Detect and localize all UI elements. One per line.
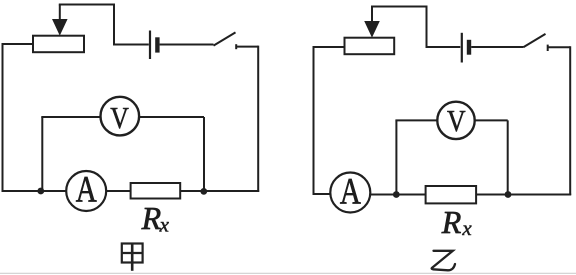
svg-text:R: R <box>141 200 162 236</box>
ammeter A2 circle <box>330 173 370 213</box>
svg-text:x: x <box>461 216 472 240</box>
wire left vertical <box>2 43 4 191</box>
wire bottom right segment <box>508 194 571 196</box>
voltmeter loop right vertical <box>507 120 509 192</box>
battery B1 short plate <box>155 37 159 52</box>
wire switch to right corner <box>548 46 571 48</box>
switch S1 fixed contact <box>235 44 237 49</box>
battery B2 short plate <box>467 40 471 55</box>
wire to battery <box>426 46 461 48</box>
switch S2 fixed contact <box>547 45 549 51</box>
wire rheostat-left to left edge <box>3 43 34 45</box>
caption 乙 <box>432 251 455 270</box>
svg-text:A: A <box>76 168 98 209</box>
svg-text:x: x <box>159 212 170 236</box>
svg-text:V: V <box>447 104 466 138</box>
resistor Rx body (left) <box>131 183 181 199</box>
node dot left (junction) <box>37 188 44 195</box>
node dot left (junction) <box>393 191 400 198</box>
node dot right (junction) <box>505 191 512 198</box>
svg-text:R: R <box>441 204 462 240</box>
wire bottom to ammeter <box>313 193 331 195</box>
ammeter A1 circle <box>66 171 106 211</box>
node dot right (junction) <box>200 188 207 195</box>
wire dot to resistor <box>396 194 426 196</box>
scan artifact line at bottom <box>0 272 576 274</box>
wire ammeter to resistor <box>106 190 131 192</box>
resistor Rx body (right) <box>426 186 477 203</box>
wire switch to right corner <box>236 46 258 48</box>
wire top right vertical <box>113 4 115 45</box>
wire resistor to dot <box>476 194 508 196</box>
wire rheostat-left to corner <box>314 46 345 48</box>
voltmeter loop right vertical <box>203 117 205 189</box>
wire bottom right segment <box>180 190 259 192</box>
wire right vertical <box>257 46 259 192</box>
wire battery to switch <box>160 44 214 46</box>
svg-text:V: V <box>110 101 129 135</box>
wire wiper to top <box>59 4 114 6</box>
voltmeter loop top-right wire <box>140 116 205 118</box>
wire left vertical <box>313 46 315 195</box>
caption 甲 <box>122 244 143 271</box>
battery B1 long plate <box>149 31 151 60</box>
switch S2 lever <box>524 34 546 47</box>
wire bottom left segment <box>2 190 67 192</box>
voltmeter loop top-left wire <box>41 116 100 118</box>
voltmeter loop top-left wire <box>395 119 437 121</box>
rheostat R1 body <box>33 36 84 53</box>
voltmeter loop left vertical <box>41 117 43 189</box>
wire top right vertical <box>426 6 428 48</box>
voltmeter V2 circle <box>437 102 474 139</box>
switch S1 lever <box>214 32 236 45</box>
wire ammeter to dot <box>370 194 396 196</box>
wire right vertical <box>569 46 571 195</box>
voltmeter loop top-right wire <box>475 119 508 121</box>
voltmeter loop left vertical <box>395 120 397 192</box>
voltmeter V1 circle <box>101 97 140 136</box>
battery B2 long plate <box>461 33 463 63</box>
rheostat R2 body <box>345 38 395 55</box>
wire wiper to top <box>371 6 427 8</box>
wire battery to switch <box>471 46 523 48</box>
wire to battery <box>113 44 149 46</box>
rheostat R2 wiper arrow <box>371 7 373 23</box>
rheostat R1 wiper arrow <box>59 5 61 21</box>
svg-text:A: A <box>340 171 362 212</box>
